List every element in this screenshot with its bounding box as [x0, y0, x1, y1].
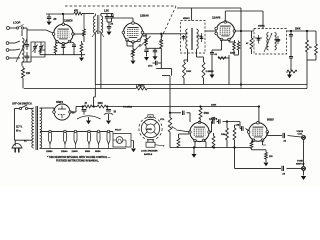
wire grid V3 [205, 30, 216, 32]
capacitor C17 [62, 44, 64, 46]
arrow leads [155, 145, 165, 146]
shield box T3 2nd IF [254, 29, 287, 55]
terminal voice coil hot [302, 136, 306, 140]
capacitor C6 to ground [107, 26, 111, 28]
shield box T2 1st IF [181, 21, 206, 54]
svg-text:BAFFLE: BAFFLE [144, 153, 153, 156]
capacitor C16 [289, 56, 293, 58]
wire [239, 122, 241, 129]
wire grid lead [27, 29, 46, 31]
capacitor C10 [181, 33, 188, 35]
wire [112, 131, 114, 133]
resistor R18 in bus [136, 87, 147, 90]
resistor R3 osc grid [83, 14, 85, 30]
wire volume feed [169, 89, 171, 113]
bus AVC lower [24, 88, 136, 90]
svg-text:220: 220 [26, 72, 31, 75]
resistor R16 [55, 44, 57, 45]
core T2 [190, 28, 192, 50]
resistor R8 [202, 62, 205, 78]
svg-text:* THIS RESISTOR INTEGRAL WITH: * THIS RESISTOR INTEGRAL WITH VOLUME CON… [47, 156, 111, 159]
wire T2 bottom leads [187, 49, 189, 62]
speaker lug bottom [148, 140, 153, 143]
resistor R12 [250, 38, 253, 49]
svg-text:470K: 470K [204, 112, 210, 115]
tube V4 35W4 rectifier [54, 104, 70, 120]
wire B+ drop [258, 107, 260, 123]
volume control R21 [168, 118, 171, 132]
wire B+ riser [240, 8, 242, 31]
resistor R22 plate load [200, 107, 202, 109]
svg-text:FURTHER INSTRUCTIONS IN MANUAL: FURTHER INSTRUCTIONS IN MANUAL. [56, 160, 99, 163]
dashed gang diagonal [159, 6, 177, 44]
capacitor C11 [197, 35, 203, 37]
svg-text:50B5: 50B5 [85, 151, 91, 153]
resistor R13 [290, 62, 292, 66]
core T1 [97, 15, 99, 34]
svg-text:12BE6: 12BE6 [46, 151, 53, 153]
wire [160, 54, 162, 63]
resistor R10 [237, 42, 240, 50]
wire plate coupling [209, 131, 211, 133]
wire [145, 36, 147, 38]
svg-text:50B5: 50B5 [267, 118, 274, 122]
heater spare [107, 130, 109, 132]
wire [14, 108, 19, 110]
speaker ring [141, 119, 159, 137]
resistor R20 filter [97, 105, 106, 108]
svg-text:12AV6: 12AV6 [72, 150, 79, 153]
svg-text:TONE: TONE [297, 161, 303, 163]
resistor R17 [80, 43, 83, 52]
output transformer on speaker [146, 142, 155, 147]
pilot lamp [116, 137, 123, 144]
resistor R1 [22, 66, 24, 68]
coil T3 secondary [275, 33, 277, 51]
coil T3 primary [267, 33, 269, 51]
wire [26, 52, 28, 56]
resistor R24 [213, 133, 215, 136]
capacitor C13 [255, 37, 262, 39]
svg-text:100K: 100K [186, 71, 192, 73]
wire [101, 13, 113, 15]
heater V4 [97, 130, 99, 132]
coil T1 oscillator primary [94, 16, 96, 33]
resistor R25 grid leak [226, 122, 228, 129]
ground [131, 140, 134, 142]
svg-text:455KC: 455KC [183, 17, 190, 20]
wire riser [94, 42, 96, 85]
capacitor C9 [152, 62, 155, 64]
capacitor C19 electrolytic [82, 107, 84, 110]
wire V3 pins down [221, 40, 223, 51]
capacitor C18 [70, 42, 75, 44]
wire riser to top [94, 89, 96, 98]
coil T2 secondary [197, 29, 199, 49]
svg-text:12BA6: 12BA6 [140, 14, 149, 18]
capacitor C3 grid w/ ground [48, 14, 50, 17]
tube V6 50B5 output [249, 123, 268, 142]
svg-text:100K: 100K [211, 105, 217, 107]
wire [233, 50, 235, 55]
svg-text:12BE6: 12BE6 [64, 19, 73, 23]
wire [240, 85, 242, 89]
wire V3 top [224, 11, 226, 22]
ground [265, 159, 267, 162]
switch S2 power [19, 107, 21, 109]
wire [24, 27, 28, 29]
svg-text:SWITCH: SWITCH [296, 163, 305, 165]
wire [10, 27, 17, 29]
wire B+ out [70, 111, 76, 113]
wire plate V2 [143, 33, 162, 35]
svg-text:PILOT: PILOT [115, 130, 122, 132]
arrow pot [131, 44, 141, 54]
bus heater top [40, 130, 113, 132]
svg-text:2.2MEG: 2.2MEG [206, 71, 214, 73]
wire bus link right [306, 85, 308, 89]
coil T1 secondary [101, 16, 103, 33]
terminal voice coil ret [302, 167, 306, 171]
resistor R5 [160, 34, 162, 40]
wire AVC [171, 69, 173, 76]
resistor R26 50B5 grid [233, 128, 236, 140]
wire grid [177, 130, 190, 132]
bus B- upper [95, 84, 307, 86]
svg-text:10M: 10M [221, 134, 225, 136]
heater V1 [49, 130, 51, 132]
svg-text:LOUD SPEAKER: LOUD SPEAKER [141, 150, 158, 153]
capacitor C22 [212, 119, 214, 123]
svg-text:1.5MEG: 1.5MEG [136, 86, 145, 88]
svg-text:12BA6: 12BA6 [61, 150, 68, 153]
switch S1 wavechange [16, 27, 18, 29]
wire [303, 139, 305, 166]
svg-text:35W4: 35W4 [95, 150, 101, 153]
resistor R4 w/ arrow [145, 38, 148, 46]
speaker lug top [148, 115, 153, 118]
resistor R9 [228, 40, 230, 43]
svg-text:117 V.: 117 V. [16, 127, 23, 129]
capacitor C2b [40, 42, 42, 46]
node ANT terminal [7, 27, 10, 30]
wire plate line [46, 13, 74, 15]
ground [303, 170, 305, 175]
resistor R6 cathode [132, 49, 135, 57]
svg-text:47K: 47K [143, 35, 147, 38]
resistor R7 [183, 62, 186, 78]
svg-text:TO 35W4: TO 35W4 [123, 106, 133, 109]
tube V5 12AT6 1st audio [190, 122, 209, 141]
bus heater bottom [40, 148, 114, 150]
svg-text:OFF-ON SWITCH: OFF-ON SWITCH [12, 103, 32, 106]
wire tone line [234, 148, 236, 169]
ground [287, 75, 292, 79]
heater V2 [64, 130, 66, 132]
svg-text:455KC: 455KC [258, 25, 265, 28]
svg-text:SPKR: SPKR [147, 129, 153, 131]
capacitor C21 [170, 112, 181, 114]
capacitor C15 [290, 31, 292, 34]
capacitor C14 [275, 39, 281, 41]
svg-text:AVC: AVC [148, 65, 153, 68]
wire [290, 40, 292, 56]
wire cathode [194, 141, 196, 148]
resistor R11 [218, 57, 226, 60]
capacitor C8 to ground [154, 48, 156, 50]
capacitor C12 [210, 52, 214, 54]
wire T3 out [287, 30, 317, 32]
wire grid V2 [112, 14, 114, 19]
wire [82, 105, 84, 107]
svg-text:60 c.: 60 c. [16, 131, 21, 133]
wire [82, 13, 94, 15]
wire T2 top lead [191, 8, 193, 21]
wire [147, 47, 162, 49]
tuning gang C2 box [31, 42, 45, 57]
arrow T1 slug [92, 31, 97, 38]
capacitor C25 [282, 133, 284, 138]
svg-text:250K: 250K [295, 29, 301, 31]
ground [192, 154, 197, 158]
wire [22, 78, 24, 89]
tube V2 12BA6 IF amp [123, 23, 142, 42]
wire [228, 61, 230, 85]
resistor R28 [265, 152, 268, 159]
speaker spokes [144, 122, 148, 126]
wire [21, 30, 23, 36]
svg-text:VOL: VOL [160, 119, 165, 121]
wire [94, 14, 96, 17]
svg-text:35W4: 35W4 [56, 100, 63, 104]
wire plate out [266, 132, 268, 136]
tube V1 12BE6 converter [54, 24, 73, 43]
svg-text:1000: 1000 [98, 103, 104, 105]
plug P1 [14, 140, 16, 146]
coil L1 antenna [22, 38, 24, 62]
resistor R19 filter [84, 105, 92, 108]
svg-text:COIL: COIL [298, 134, 304, 136]
transformer T4 secondary [40, 108, 42, 148]
capacitor C4 [106, 14, 108, 17]
wire [62, 14, 64, 23]
capacitor C2a [34, 42, 36, 46]
dashed gang link [65, 5, 176, 7]
heater V5 [88, 130, 90, 132]
capacitor C26 [281, 166, 283, 171]
wire [73, 33, 84, 35]
capacitor C7 to ground [144, 49, 148, 51]
speaker frame dashed [139, 117, 162, 140]
resistor R27 cathode [252, 139, 254, 142]
wire [169, 132, 171, 148]
capacitor C1 trimmer [26, 36, 28, 44]
wire V3 plate [234, 30, 254, 32]
capacitor C5 padder [111, 14, 113, 17]
arrow L1 adjust [16, 39, 27, 62]
wire cathode line [40, 54, 85, 56]
resistor R14 [306, 31, 308, 40]
rail audio [170, 147, 250, 149]
antenna terminals [6, 42, 9, 45]
svg-text:LOOP: LOOP [13, 21, 21, 25]
pilot lamp box [113, 134, 131, 148]
arrow T3 slug [264, 33, 272, 52]
svg-text:12AV6: 12AV6 [212, 16, 221, 20]
capacitor C24 [241, 126, 243, 131]
wire [33, 107, 34, 110]
resistor R15 [315, 31, 317, 44]
capacitor C23 [218, 119, 220, 123]
core T4 [35, 106, 37, 150]
wire B+ rail [106, 106, 259, 108]
wire tube V2 cathode [132, 42, 134, 49]
svg-text:220K: 220K [230, 53, 236, 55]
wire [252, 149, 267, 151]
heater V3 [74, 130, 76, 132]
resistor R2 plate [74, 12, 82, 15]
resistor R23 cathode [177, 138, 180, 148]
svg-text:2.2K: 2.2K [104, 11, 109, 13]
transformer T4 primary [32, 108, 34, 148]
wire [39, 50, 41, 55]
ground [81, 55, 83, 57]
tube V3 12AT6 det [216, 22, 234, 40]
svg-text:47K: 47K [74, 10, 79, 13]
capacitor C20 electrolytic [106, 107, 108, 110]
coil T2 primary [186, 29, 188, 49]
wire T3 top [262, 11, 264, 29]
